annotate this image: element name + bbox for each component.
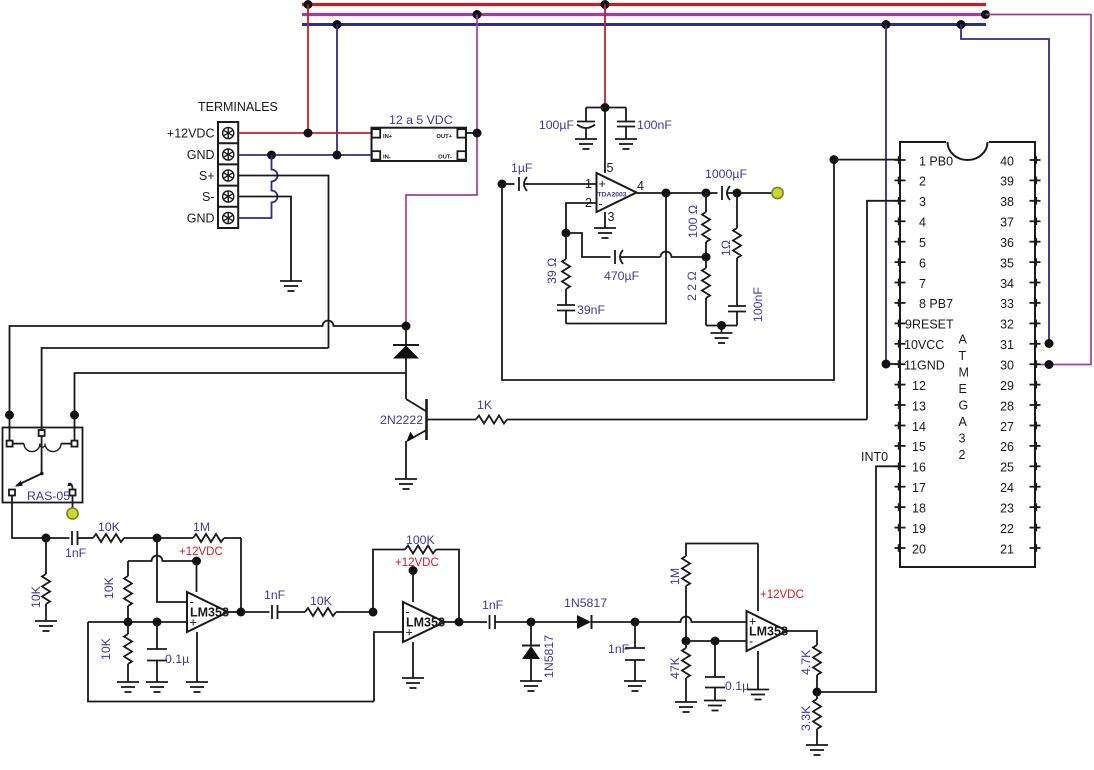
resistor 1K base: [427, 416, 868, 424]
pin 1 left: [895, 156, 906, 164]
svg-text:+: +: [599, 177, 606, 191]
svg-text:39 Ω: 39 Ω: [545, 258, 559, 284]
svg-text:-: -: [599, 197, 603, 211]
wire: relay common run from S+: [42, 348, 329, 431]
svg-text:2: 2: [959, 448, 966, 462]
node: detector node: [527, 618, 536, 627]
ground stage1 vminus: [186, 682, 208, 692]
pin 39 right: [1030, 177, 1041, 185]
pin 13 left: [895, 401, 906, 409]
wire: relay NO to indicator: [72, 496, 74, 508]
capacitor 100uF supply: [577, 108, 595, 140]
wire: supply node horizontal: [586, 107, 626, 109]
node: TDA supply node: [601, 103, 610, 112]
wire: purple module output to relay supply node: [406, 133, 477, 326]
node: INT0 divider node: [813, 688, 822, 697]
node: pin30 avcc: [1045, 360, 1054, 369]
svg-text:4: 4: [637, 179, 644, 193]
wire: S+ terminal down to relay common: [238, 176, 328, 349]
resistor 10K series input: [93, 534, 157, 542]
svg-text:S+: S+: [199, 169, 215, 183]
capacitor 0.1u threshold: [705, 641, 725, 701]
ground stage3 vminus: [747, 690, 769, 700]
relay armature: [15, 436, 44, 487]
node: relay coil left top: [5, 411, 14, 420]
svg-text:100µF: 100µF: [539, 118, 575, 132]
wire: stage1 V- to ground: [196, 632, 198, 682]
node: after 1000uF: [733, 189, 742, 198]
svg-text:GND: GND: [187, 148, 215, 162]
wire: threshold row: [686, 640, 747, 642]
op-amp U2A LM358: [187, 592, 228, 632]
svg-text:22: 22: [1000, 522, 1014, 536]
ground 100nF: [615, 139, 637, 149]
svg-text:1M: 1M: [668, 568, 682, 585]
svg-text:1 PB0: 1 PB0: [919, 154, 953, 168]
wire: blue link GND to GND2 terminal with hops: [238, 155, 277, 218]
pin 24 right: [1030, 483, 1041, 491]
pin 11 left: [895, 360, 906, 368]
node: blue bus junction left: [333, 20, 342, 29]
svg-text:23: 23: [1000, 501, 1014, 515]
relay NO hook: [68, 484, 73, 490]
node: output b: [702, 189, 711, 198]
terminal screw +12VDC: [223, 127, 234, 138]
ground 3.3K: [806, 745, 828, 755]
capacitor 1uF input: [502, 177, 597, 191]
indicator terminal green: [67, 508, 78, 519]
svg-text:1K: 1K: [477, 398, 493, 412]
resistor 10K stage2: [305, 608, 373, 616]
resistor 100K feedback stage2: [373, 546, 459, 623]
svg-text:47K: 47K: [668, 656, 682, 679]
5V purple bus: [302, 13, 986, 16]
svg-text:19: 19: [912, 522, 926, 536]
ground 100uF: [575, 139, 597, 149]
node: pin31 gnd: [1045, 339, 1054, 348]
svg-text:10K: 10K: [99, 637, 113, 660]
svg-text:35: 35: [1000, 256, 1014, 270]
speaker terminal green: [772, 187, 783, 198]
svg-text:+12VDC: +12VDC: [167, 127, 215, 141]
svg-text:25: 25: [1000, 461, 1014, 475]
node: stage1 +12V: [192, 557, 201, 566]
wire: stage3 output: [787, 631, 817, 645]
node: stage1 output: [237, 608, 246, 617]
wire: TDA output row: [637, 192, 718, 194]
wire: base drive from ATMEGA pin3: [867, 201, 900, 420]
pin 19 left: [895, 524, 906, 532]
pin 34 right: [1030, 279, 1041, 287]
node: threshold node a: [682, 637, 691, 646]
svg-text:12: 12: [912, 379, 926, 393]
node: blue bus junction pin31: [957, 20, 966, 29]
node: blue gnd junction 1: [267, 151, 276, 160]
pin 16 left: [895, 463, 906, 471]
svg-text:100nF: 100nF: [637, 118, 672, 132]
ground emitter: [395, 479, 417, 489]
capacitor 1nF input: [46, 531, 93, 545]
wire: blue drop bus to ATMEGA pin11 GND: [885, 25, 887, 365]
svg-text:1µF: 1µF: [511, 161, 533, 175]
node: PB0 corner: [830, 155, 839, 164]
relay K1 RAS-05 box: [3, 428, 83, 503]
svg-text:1N5817: 1N5817: [542, 635, 556, 678]
pin 26 right: [1030, 442, 1041, 450]
svg-text:0.1µ: 0.1µ: [725, 679, 749, 693]
svg-text:7: 7: [919, 277, 926, 291]
capacitor 1nF interstage1: [241, 605, 305, 619]
svg-text:40: 40: [1000, 154, 1014, 168]
pin 23 right: [1030, 503, 1041, 511]
svg-text:27: 27: [1000, 420, 1014, 434]
node: output a: [662, 189, 671, 198]
relay NC contact pin: [9, 490, 15, 496]
resistor 10K bias upper: [124, 561, 132, 622]
svg-text:3: 3: [608, 210, 615, 224]
node: stage2 +12V: [409, 566, 418, 575]
wire: stage1 output: [228, 611, 241, 613]
terminal screw GND2: [223, 212, 234, 223]
svg-text:32: 32: [1000, 318, 1014, 332]
resistor 10K to ground at input: [42, 538, 50, 621]
ground boucherot: [711, 333, 733, 343]
svg-text:IN+: IN+: [383, 134, 393, 140]
svg-text:18: 18: [912, 501, 926, 515]
ground 1nF filter: [624, 681, 646, 691]
svg-text:3: 3: [959, 432, 966, 446]
node: red bus junction left: [304, 0, 313, 9]
capacitor 1nF filter: [625, 622, 645, 681]
wire: red drop bus to TDA supply: [604, 5, 606, 108]
resistor 47K: [682, 641, 690, 702]
pin 12 left: [895, 381, 906, 389]
wire: blue drop bus to GND row: [336, 25, 338, 156]
relay common pin: [39, 430, 45, 436]
svg-text:21: 21: [1000, 542, 1014, 556]
wire: TDA pin5 supply: [604, 108, 606, 174]
wire: TDA pin2 to feedback node: [566, 203, 597, 233]
diode D3 1N5817 series: [531, 615, 635, 629]
svg-text:3.3K: 3.3K: [799, 705, 813, 731]
svg-text:M: M: [959, 366, 969, 380]
wire: inverting node down to op-amp: [157, 538, 187, 602]
svg-text:34: 34: [1000, 277, 1014, 291]
svg-text:24: 24: [1000, 481, 1014, 495]
pin 10 left: [895, 340, 906, 348]
pin 15 left: [895, 442, 906, 450]
pin 35 right: [1030, 258, 1041, 266]
svg-text:8 PB7: 8 PB7: [919, 297, 953, 311]
pin 31 right: [1030, 340, 1041, 348]
resistor 1M threshold: [682, 544, 758, 642]
ground 0.1u threshold: [704, 701, 726, 711]
+12V red bus: [302, 3, 986, 6]
wire: INT0 pin16 run: [817, 466, 900, 692]
ground TDA pin3: [594, 228, 616, 238]
relay NO contact pin: [70, 490, 76, 496]
wire: stage2 V- to ground: [412, 642, 414, 678]
svg-text:10K: 10K: [310, 594, 333, 608]
svg-text:38: 38: [1000, 195, 1014, 209]
node: input chain start: [42, 534, 51, 543]
svg-text:2 2 Ω: 2 2 Ω: [685, 271, 699, 301]
GND blue bus: [302, 23, 986, 26]
node: purple bus junction module: [473, 10, 482, 19]
svg-text:10K: 10K: [98, 520, 121, 534]
svg-text:16: 16: [912, 461, 926, 475]
node: red wire junction: [304, 129, 313, 138]
node: filter node: [631, 618, 640, 627]
node: red bus junction TDA supply: [601, 0, 610, 9]
svg-text:+12VDC: +12VDC: [760, 589, 804, 601]
svg-text:2N2222: 2N2222: [380, 413, 423, 427]
node: bias node a: [124, 618, 133, 627]
svg-text:A: A: [959, 333, 968, 347]
svg-text:20: 20: [912, 542, 926, 556]
pin 18 left: [895, 503, 906, 511]
wire: blue jog bus to ATMEGA pin31: [961, 25, 1049, 344]
pin 14 left: [895, 422, 906, 430]
svg-text:G: G: [959, 399, 969, 413]
node: bias node b: [153, 618, 162, 627]
svg-text:30: 30: [1000, 359, 1014, 373]
pin 17 left: [895, 483, 906, 491]
resistor 3.3K: [813, 692, 821, 745]
wire: TDA pin3 to ground: [604, 212, 606, 228]
svg-text:31: 31: [1000, 338, 1014, 352]
svg-text:12 a 5 VDC: 12 a 5 VDC: [389, 113, 453, 127]
wire: stage3 V+: [757, 544, 759, 612]
pin 25 right: [1030, 463, 1041, 471]
svg-text:T: T: [959, 349, 967, 363]
pin 40 right: [1030, 156, 1041, 164]
svg-text:LM358: LM358: [190, 606, 229, 620]
wire: purple bus right to ATMEGA pin30: [986, 15, 1092, 365]
wire: feedback bottom run: [566, 193, 666, 324]
pin 38 right: [1030, 197, 1041, 205]
svg-text:39nF: 39nF: [577, 303, 606, 317]
terminal screw S-: [223, 191, 234, 202]
svg-text:100K: 100K: [406, 533, 436, 547]
svg-text:TERMINALES: TERMINALES: [198, 100, 278, 114]
diode D2 1N5817 shunt: [522, 622, 540, 681]
op-amp U2B LM358: [403, 602, 445, 642]
svg-text:1nF: 1nF: [608, 642, 630, 656]
pin 3 left: [895, 197, 906, 205]
svg-text:5: 5: [607, 161, 614, 175]
terminal block outline: [218, 122, 238, 228]
svg-text:10VCC: 10VCC: [904, 338, 944, 352]
svg-text:0.1µ: 0.1µ: [165, 652, 189, 666]
svg-text:1N5817: 1N5817: [564, 596, 607, 610]
svg-text:LM358: LM358: [406, 616, 445, 630]
capacitor 470uF: [615, 250, 661, 264]
svg-text:29: 29: [1000, 379, 1014, 393]
node: stage2 output: [455, 618, 464, 627]
wire: relay 5V supply run: [10, 321, 407, 441]
wire: +12V bias wire with hop: [128, 556, 197, 562]
node: purple bus right end: [981, 10, 990, 19]
wire: purple drop bus to module output: [476, 15, 478, 134]
wire: stage1 V+: [196, 561, 198, 592]
svg-text:28: 28: [1000, 399, 1014, 413]
wire: relay NC to input chain: [12, 496, 46, 539]
svg-text:+12VDC: +12VDC: [395, 557, 439, 569]
pin 37 right: [1030, 218, 1041, 226]
svg-text:11GND: 11GND: [904, 359, 945, 373]
pin 2 left: [895, 177, 906, 185]
svg-text:10K: 10K: [29, 585, 43, 608]
svg-text:TDA2003: TDA2003: [598, 192, 627, 199]
svg-text:E: E: [959, 382, 967, 396]
ground 47K: [675, 702, 697, 712]
relay coil: [7, 441, 78, 452]
node: module output: [473, 129, 482, 138]
svg-text:GND: GND: [187, 212, 215, 226]
svg-text:100 Ω: 100 Ω: [686, 205, 700, 238]
node: threshold node b: [711, 637, 720, 646]
pin 27 right: [1030, 422, 1041, 430]
svg-text:39: 39: [1000, 175, 1014, 189]
resistor 1M feedback stage1: [157, 534, 241, 612]
svg-text:IN-: IN-: [383, 155, 391, 161]
wire: to ground: [721, 326, 723, 334]
node: blue bus junction pin11: [882, 20, 891, 29]
svg-text:2: 2: [919, 175, 926, 189]
svg-text:OUT+: OUT+: [436, 134, 452, 140]
svg-text:1M: 1M: [193, 520, 210, 534]
module 12a5VDC box: [372, 128, 467, 161]
capacitor 0.1u bias: [147, 622, 167, 682]
capacitor 39nF: [557, 305, 575, 324]
terminal screw S+: [223, 170, 234, 181]
wire: module out to purple node: [466, 132, 477, 134]
pin 9 left: [895, 320, 906, 328]
svg-text:1000µF: 1000µF: [705, 167, 747, 181]
svg-text:+12VDC: +12VDC: [179, 546, 223, 558]
wire: blue GND terminal to module: [238, 154, 371, 156]
svg-text:RAS-05: RAS-05: [27, 489, 70, 503]
terminal screw GND: [223, 149, 234, 160]
ground D2: [520, 681, 542, 691]
svg-text:37: 37: [1000, 216, 1014, 230]
svg-text:100nF: 100nF: [751, 287, 765, 322]
pin 28 right: [1030, 401, 1041, 409]
node: blue gnd junction 2: [333, 151, 342, 160]
pin 4 left: [895, 218, 906, 226]
diode D1 flyback: [393, 326, 419, 373]
capacitor 100nF output: [722, 306, 747, 326]
svg-text:INT0: INT0: [861, 450, 888, 464]
svg-text:9RESET: 9RESET: [905, 318, 954, 332]
node: relay supply diode node: [402, 322, 411, 331]
pin 36 right: [1030, 238, 1041, 246]
node: relay coil right top: [70, 411, 79, 420]
capacitor 100nF supply: [617, 108, 635, 140]
svg-text:14: 14: [912, 420, 926, 434]
node: feedback node: [562, 229, 571, 238]
pin 21 right: [1030, 544, 1041, 552]
resistor 10K bias lower: [124, 622, 132, 682]
pin 29 right: [1030, 381, 1041, 389]
pin 7 left: [895, 279, 906, 287]
wire: relay coil drive run: [75, 373, 407, 441]
wire: red +12VDC terminal to module: [238, 132, 371, 134]
svg-text:1nF: 1nF: [264, 588, 286, 602]
wire: bias rail to stage2: [88, 622, 374, 702]
pin 6 left: [895, 258, 906, 266]
svg-text:13: 13: [912, 399, 926, 413]
svg-text:S-: S-: [202, 190, 215, 204]
capacitor 1000uF: [722, 186, 772, 200]
pin 8 left: [895, 299, 906, 307]
svg-text:1nF: 1nF: [65, 546, 87, 560]
ground stage2 vminus: [402, 678, 424, 688]
pin 22 right: [1030, 524, 1041, 532]
svg-text:4.7K: 4.7K: [799, 649, 813, 675]
resistor 4.7K: [813, 645, 821, 692]
wire: stage2 output: [445, 621, 460, 623]
svg-text:1Ω: 1Ω: [719, 240, 733, 256]
wire: signal to comparator with hop: [635, 617, 747, 623]
capacitor 1nF interstage2: [459, 615, 531, 629]
svg-text:A: A: [959, 415, 968, 429]
svg-text:36: 36: [1000, 236, 1014, 250]
svg-text:5: 5: [919, 236, 926, 250]
op-amp U1 TDA2003: [597, 173, 637, 212]
wire: bias node row: [88, 621, 187, 623]
wire: 470uF row hop over feedback and to node: [661, 252, 707, 257]
wire: red drop bus to terminal +12VDC row: [307, 5, 309, 134]
wire: stage3 V- to ground: [757, 651, 759, 690]
resistor 100ohm: [702, 193, 710, 257]
svg-text:3: 3: [919, 195, 926, 209]
ground input 10K: [35, 621, 57, 631]
node: output gnd node: [717, 321, 726, 330]
svg-text:15: 15: [912, 440, 926, 454]
resistor 39ohm: [562, 233, 570, 305]
svg-text:1: 1: [585, 177, 592, 191]
wire: pin11 to blue: [886, 363, 900, 365]
IC notch: [946, 140, 989, 144]
svg-text:1nF: 1nF: [482, 598, 504, 612]
svg-text:10K: 10K: [102, 576, 116, 599]
wire: PB0 to amp input: [502, 160, 900, 380]
node: stage2 inverting node: [369, 608, 378, 617]
op-amp U3 LM358 comparator: [747, 611, 788, 651]
wire: 470uF branch from feedback node: [566, 233, 611, 257]
pin 5 left: [895, 238, 906, 246]
node: stage1 inverting node: [153, 534, 162, 543]
ground 0.1u bias: [146, 682, 168, 692]
pin 30 right: [1030, 360, 1041, 368]
wire: S- terminal to ground: [238, 197, 291, 282]
svg-text:OUT-: OUT-: [438, 155, 452, 161]
IC U4 ATMEGA32 box: [900, 142, 1035, 567]
pin 20 left: [895, 544, 906, 552]
ground S-: [280, 281, 302, 291]
svg-text:26: 26: [1000, 440, 1014, 454]
pin 33 right: [1030, 299, 1041, 307]
ground bias 10K: [117, 682, 139, 692]
node: boucherot mid: [702, 253, 711, 262]
wire: stage2 V+: [412, 571, 414, 603]
svg-text:33: 33: [1000, 297, 1014, 311]
node: TDA input: [498, 180, 507, 189]
svg-text:17: 17: [912, 481, 926, 495]
svg-text:6: 6: [919, 256, 926, 270]
